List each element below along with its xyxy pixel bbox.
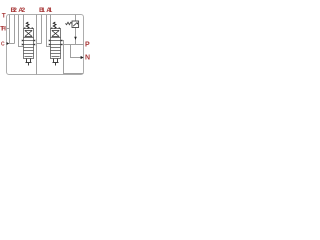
svg-text:B1: B1 <box>39 7 45 14</box>
svg-text:T: T <box>2 13 6 20</box>
svg-text:TH: TH <box>0 26 6 33</box>
svg-text:B2: B2 <box>11 7 18 14</box>
svg-text:C: C <box>1 42 5 48</box>
svg-text:A1: A1 <box>46 7 52 14</box>
svg-text:P: P <box>85 41 90 48</box>
svg-text:A2: A2 <box>18 7 25 14</box>
svg-text:N: N <box>85 54 90 61</box>
